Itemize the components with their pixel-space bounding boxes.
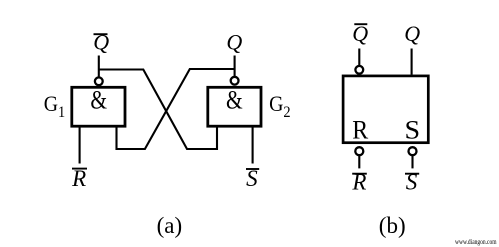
svg-text:(a): (a) (157, 213, 183, 238)
svg-text:www.diangon.com: www.diangon.com (455, 238, 497, 246)
svg-text:S: S (246, 166, 258, 191)
svg-text:(b): (b) (379, 213, 406, 238)
svg-text:&: & (226, 87, 243, 115)
svg-text:R: R (352, 117, 368, 145)
svg-text:Q: Q (404, 21, 420, 46)
svg-text:R: R (71, 166, 86, 191)
svg-text:&: & (90, 87, 107, 115)
svg-text:Q: Q (226, 29, 242, 54)
svg-text:Q: Q (352, 21, 368, 46)
svg-text:G1: G1 (44, 91, 65, 121)
svg-text:G2: G2 (269, 91, 290, 121)
svg-text:Q: Q (93, 29, 109, 54)
svg-text:R: R (351, 169, 366, 194)
svg-text:S: S (406, 169, 418, 194)
svg-text:S: S (405, 116, 421, 145)
